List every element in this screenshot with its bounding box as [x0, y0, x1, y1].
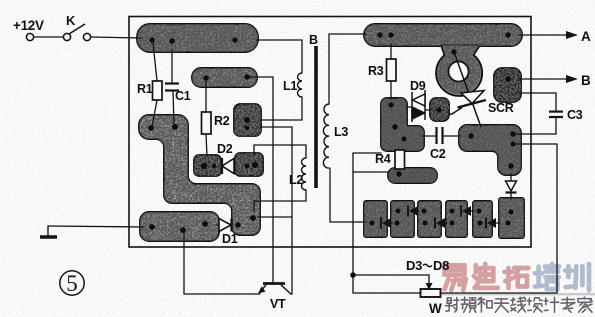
node dot oval pad — [396, 171, 401, 176]
wire D1 anode stub — [216, 224, 220, 226]
switch K — [63, 33, 70, 40]
diodes D3-D7 arrowheads — [382, 206, 496, 228]
copper donut trace — [436, 45, 482, 96]
PCB board outline — [129, 17, 531, 248]
node dot donut — [451, 49, 456, 54]
wire ground to bottom trace — [48, 226, 144, 227]
node dots right rail — [377, 32, 382, 37]
node dots rectifier pads — [370, 221, 375, 226]
thyristor SCR — [448, 52, 486, 127]
inductor L3 — [323, 104, 329, 168]
wire R2 bottom lead — [206, 134, 207, 156]
pad of output B — [494, 68, 521, 102]
copper trace top-left (power rail) — [137, 24, 258, 52]
arrow B head — [566, 75, 578, 83]
wire C3 bottom to big pad — [514, 117, 556, 134]
copper trace 2 — [192, 68, 257, 87]
node dots big L pad — [468, 133, 473, 138]
wire L2 bottom to S-trace — [254, 190, 306, 212]
rectifier pad 6 — [499, 198, 524, 238]
watermark logo — [430, 264, 595, 312]
transistor VT — [260, 284, 292, 295]
pad near R2 — [234, 104, 261, 136]
donut hole — [449, 62, 469, 82]
wire R3 top lead — [390, 44, 392, 59]
wire trace2 to VT base — [250, 77, 273, 282]
rectifier pad 5 — [473, 201, 492, 237]
rectifier pad 4 — [446, 201, 467, 237]
wire R3 bottom lead — [390, 81, 392, 99]
wire potentiometer W to junction — [353, 153, 420, 293]
wire to R4 oval pad — [353, 171, 389, 173]
copper top-right rail — [364, 24, 522, 46]
wire junction to wiper arrow — [353, 275, 429, 284]
copper bottom-left trace — [140, 212, 219, 241]
ground — [40, 226, 57, 237]
wire output A — [519, 34, 567, 36]
capacitor C2 — [437, 127, 443, 144]
inductor L2 — [302, 158, 307, 190]
wire C2 left lead — [422, 135, 435, 137]
pad right of D2 — [235, 153, 263, 176]
wire rail to L1 top — [256, 40, 302, 73]
donut hole redraw — [449, 62, 469, 82]
node dots on R2 pad — [244, 117, 250, 123]
wire D8 bottom lead — [510, 193, 512, 199]
capacitor C3 — [549, 112, 563, 117]
potentiometer W — [421, 289, 441, 297]
circled figure 5 — [60, 271, 84, 295]
pad left of R4 (L-shape) — [381, 98, 424, 151]
node junction bottom left — [350, 272, 356, 278]
node dots on D2 pads — [201, 163, 207, 169]
node dots trace2 — [203, 75, 208, 80]
inductor L1 — [298, 73, 303, 97]
node dots S-trace bottom — [250, 215, 256, 221]
resistor R2 — [202, 112, 212, 134]
wire L3 bottom to rectifier pad1 — [330, 168, 366, 222]
copper S-shaped trace — [139, 115, 260, 235]
wire switch to board — [91, 37, 142, 38]
wire C1 top lead — [171, 50, 173, 82]
wire pad B to C3 top — [519, 93, 556, 111]
node dot pad B — [505, 76, 511, 82]
diode row D3..D7 — [381, 206, 486, 229]
rectifier pad 2 — [391, 201, 414, 237]
wire pad to VT collector — [261, 127, 292, 294]
capacitor C1 — [165, 84, 179, 91]
rectifier pad 1 — [364, 201, 387, 237]
wire R1 bottom lead — [152, 100, 157, 127]
node dots S-trace top — [148, 125, 154, 131]
wire D9 right stub — [425, 109, 431, 111]
wire D2 pad to L2 top — [254, 145, 306, 158]
wire R1 top lead — [153, 43, 157, 81]
node dots bottom-left trace — [149, 224, 155, 230]
resistor R4 — [395, 150, 405, 169]
rectifier pad 3 — [418, 201, 441, 237]
terminal +12V — [26, 33, 33, 40]
wire D8 top lead — [510, 174, 512, 181]
wire C2 right lead — [443, 135, 461, 137]
arrow A head — [566, 31, 578, 39]
big L pad right — [459, 125, 521, 175]
diode D1 — [219, 219, 232, 232]
resistor R3 — [387, 59, 397, 81]
node dots on power rail — [149, 37, 154, 42]
wire D9 left stub — [406, 106, 412, 108]
node dots L-pad — [388, 102, 393, 107]
wire C1 bottom lead — [173, 91, 174, 126]
wire diode row joints — [386, 222, 392, 224]
pad left of D2 — [194, 155, 221, 176]
transformer core B — [314, 46, 318, 188]
small pad right of D9 — [430, 98, 449, 121]
diode D2 — [222, 158, 234, 174]
wire L3 top to right rail — [329, 34, 366, 104]
wire big pad to potentiometer W — [441, 144, 557, 293]
wire output B — [519, 78, 567, 80]
wire +12V to switch — [34, 36, 63, 38]
wire R2 top lead — [205, 80, 207, 112]
node dot small pad — [436, 107, 441, 112]
diode D9 (diac pair) — [412, 90, 425, 122]
resistor R1 — [153, 81, 163, 100]
wire VT emitter return — [184, 228, 260, 294]
wire S-trace to collector line — [258, 216, 292, 218]
oval pad under R4 — [388, 168, 437, 183]
wire L1 bottom to pad — [261, 97, 302, 120]
diode D8 vertical — [506, 181, 517, 193]
